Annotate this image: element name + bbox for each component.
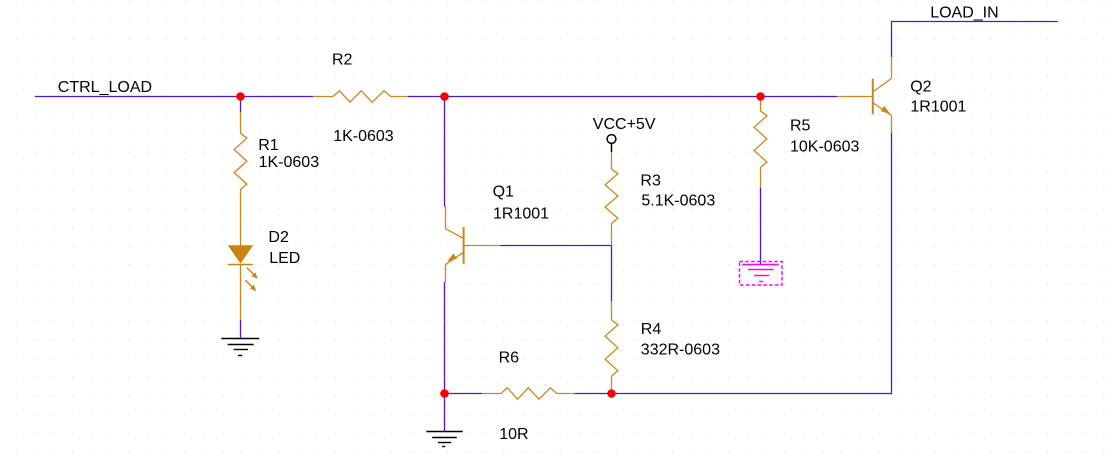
ground GND1 under D2 [221,339,259,356]
svg-text:CTRL_LOAD: CTRL_LOAD [58,79,152,96]
wire rail mid segment [408,96,761,98]
transistor Q1 [446,206,501,282]
resistor R6 [482,388,575,399]
wire Q1 base to R3/R4 node [501,245,613,247]
node junction J5 at R4 bottom [607,389,616,398]
node junction J1 at R1 tap [236,92,245,101]
node junction J3 at R5 tap [756,92,765,101]
wire D2 cathode to ground [240,320,242,338]
wire junction J4 to ground [444,394,446,432]
svg-text:R4: R4 [641,321,662,338]
wire R3 bottom to R4 top link [611,246,613,302]
svg-text:R2: R2 [332,52,353,69]
wire R6 right to R4 bottom junction [575,393,612,395]
svg-text:VCC+5V: VCC+5V [593,116,656,133]
node junction J4 at Q1 emitter / R6 / ground [440,389,449,398]
wire Q2 collector riser [891,22,893,58]
svg-text:LED: LED [269,250,300,267]
node junction J2 at Q1 collector tap [440,92,449,101]
resistor R2 [313,91,408,102]
diode D2 LED [228,245,258,320]
svg-text:1R1001: 1R1001 [493,205,549,222]
svg-text:LOAD_IN: LOAD_IN [930,4,998,21]
wire R1 top stub [240,95,242,112]
wire bottom rail right to Q2 emitter [612,393,892,395]
ground GND2 under bottom rail [426,432,462,447]
wire bottom rail left (junction to R6) [445,393,483,395]
svg-text:Q2: Q2 [910,79,931,96]
svg-text:1R1001: 1R1001 [910,99,966,116]
svg-text:1K-0603: 1K-0603 [259,154,320,171]
svg-text:10K-0603: 10K-0603 [790,139,859,156]
power ground symbol (dashed box) under R5 [740,262,783,286]
svg-text:R3: R3 [640,173,661,190]
svg-text:5.1K-0603: 5.1K-0603 [641,193,715,210]
svg-text:R6: R6 [499,350,520,367]
svg-text:1K-0603: 1K-0603 [333,128,394,145]
wire CTRL_LOAD rail left segment [35,96,313,98]
svg-text:R5: R5 [790,117,811,134]
svg-text:R1: R1 [258,137,279,154]
resistor R4 [605,301,618,394]
wire Q1 collector riser [444,95,446,206]
wire Q2 emitter drop [891,132,893,395]
transistor Q2 [837,57,892,133]
svg-text:332R-0603: 332R-0603 [641,342,720,359]
wire LOAD_IN [891,21,1058,23]
wire Q1 emitter drop [444,282,446,394]
wire rail right segment to Q2 base [761,96,838,98]
resistor R1 [234,112,247,245]
resistor R5 [754,98,767,188]
transistor Q2 emitter arrow [881,106,891,114]
svg-text:Q1: Q1 [493,184,514,201]
transistor Q1 emitter arrow [447,253,457,261]
svg-text:D2: D2 [268,229,289,246]
wire R5 bottom to power ground [760,188,762,264]
svg-text:10R: 10R [499,426,528,443]
resistor R3 [605,152,618,246]
power symbol VCC+5V [607,135,616,152]
